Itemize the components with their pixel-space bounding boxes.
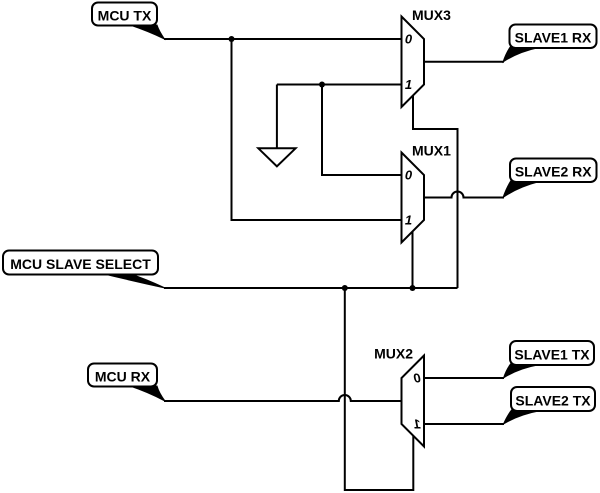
- svg-text:SLAVE2 TX: SLAVE2 TX: [515, 392, 591, 408]
- svg-text:MUX1: MUX1: [412, 143, 451, 159]
- svg-text:1: 1: [405, 77, 412, 92]
- svg-text:MUX3: MUX3: [412, 7, 451, 23]
- svg-text:0: 0: [405, 167, 413, 182]
- svg-text:0: 0: [405, 31, 413, 46]
- svg-text:MCU SLAVE SELECT: MCU SLAVE SELECT: [10, 256, 151, 272]
- svg-text:SLAVE1 RX: SLAVE1 RX: [515, 30, 592, 46]
- svg-text:SLAVE1 TX: SLAVE1 TX: [514, 346, 590, 362]
- svg-text:MUX2: MUX2: [374, 346, 413, 362]
- svg-text:0: 0: [413, 370, 421, 385]
- svg-text:1: 1: [405, 212, 412, 227]
- svg-text:MCU TX: MCU TX: [98, 7, 152, 23]
- svg-text:MCU RX: MCU RX: [95, 368, 151, 384]
- svg-text:SLAVE2 RX: SLAVE2 RX: [515, 164, 592, 180]
- svg-text:1: 1: [414, 416, 421, 431]
